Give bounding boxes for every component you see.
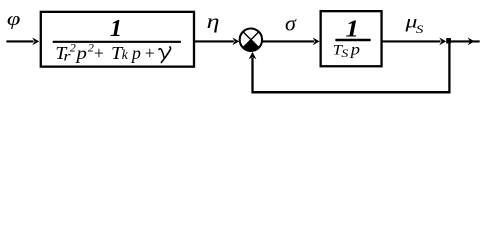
output arrowhead: [468, 38, 475, 46]
summing junction S1: [240, 29, 262, 51]
svg-text:σ: σ: [285, 11, 297, 36]
arrowhead into summing junction: [232, 38, 239, 46]
svg-text:p: p: [130, 43, 141, 63]
svg-text:1: 1: [110, 15, 122, 42]
wire: G2 output to junction node: [383, 40, 441, 42]
G1 fraction bar: [53, 41, 181, 43]
block G1 transfer function 1/(Tr^2 p^2 + Tk p + gamma): [41, 12, 194, 67]
wire: summing junction to block G2: [263, 40, 314, 42]
svg-text:η: η: [207, 11, 220, 33]
wire: feedback rise to summing junction: [251, 58, 253, 94]
wire: input signal to block G1: [6, 40, 33, 42]
svg-text:S: S: [416, 22, 424, 35]
arrowhead into G1: [32, 38, 39, 46]
arrowhead at junction node: [439, 38, 446, 46]
svg-text:φ: φ: [7, 8, 20, 29]
wire: feedback drop from junction: [448, 43, 450, 94]
svg-text:S: S: [341, 46, 348, 60]
wire: G1 output to summing junction: [195, 40, 234, 42]
svg-text:p: p: [74, 44, 87, 63]
junction node dot: [446, 38, 451, 43]
svg-text:2: 2: [70, 41, 76, 55]
block G2 transfer function 1/(Ts p): [321, 11, 382, 66]
svg-text:p: p: [349, 40, 361, 58]
svg-text:+: +: [144, 43, 156, 63]
wire: feedback bottom run: [252, 91, 451, 94]
svg-text:1: 1: [345, 15, 359, 42]
svg-text:k: k: [122, 47, 129, 62]
G2 denominator Ts p: [333, 40, 361, 59]
wire: junction to right output: [451, 40, 480, 42]
arrowhead into G2: [313, 38, 320, 46]
arrowhead into summing junction from below: [249, 52, 257, 59]
svg-text:+: +: [93, 43, 105, 63]
G1 denominator Tr^2 p^2 + Tk p + gamma: [55, 41, 170, 65]
G2 fraction bar: [335, 39, 370, 41]
